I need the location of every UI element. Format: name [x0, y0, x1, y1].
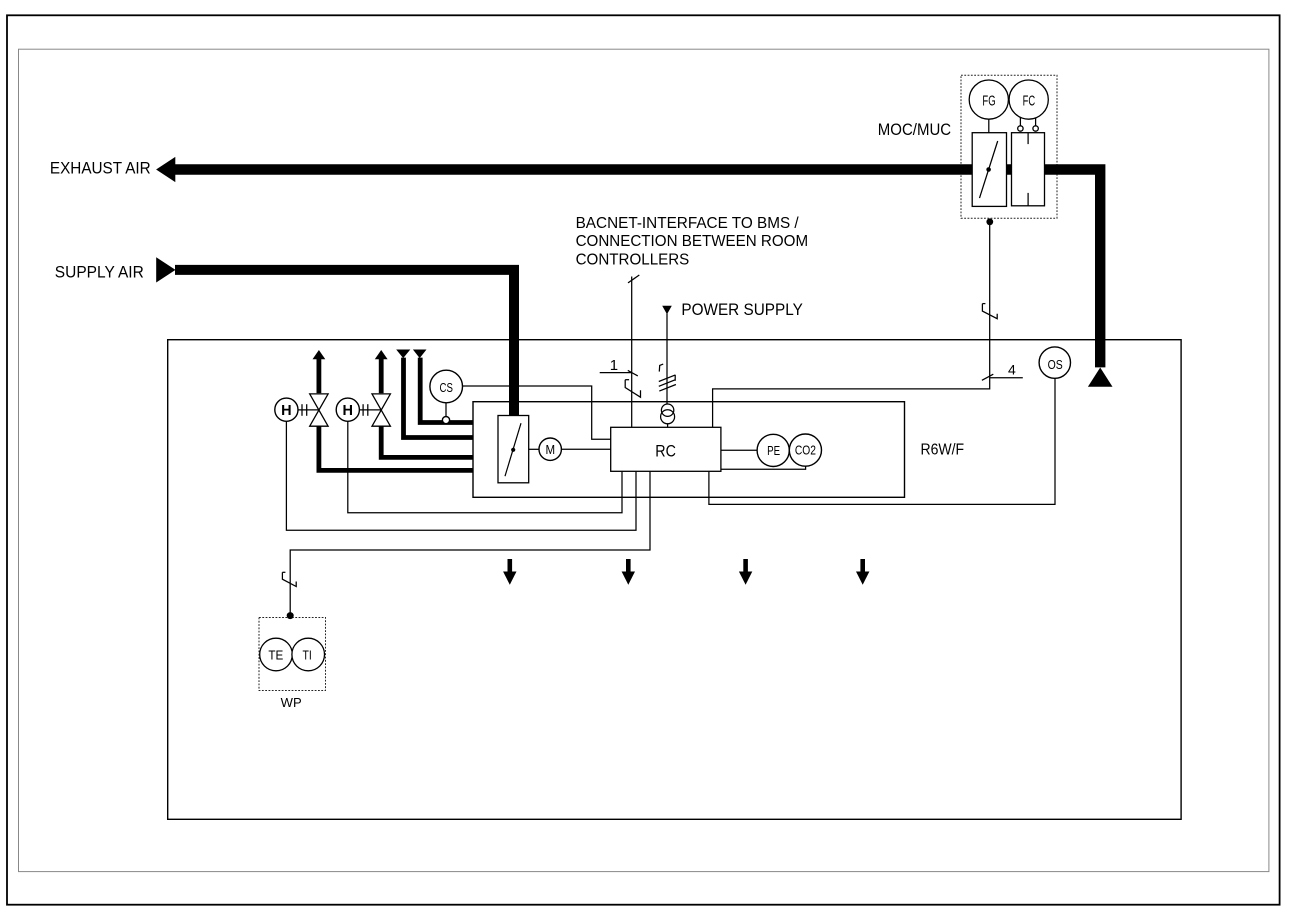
svg-text:TI: TI [303, 647, 312, 662]
svg-text:EXHAUST AIR: EXHAUST AIR [50, 159, 151, 177]
svg-text:M: M [546, 442, 556, 457]
svg-text:CONNECTION BETWEEN ROOM: CONNECTION BETWEEN ROOM [576, 233, 809, 250]
svg-text:OS: OS [1048, 357, 1063, 372]
svg-text:1: 1 [610, 357, 618, 374]
svg-text:CS: CS [440, 380, 453, 395]
svg-text:TE: TE [268, 647, 283, 662]
svg-text:SUPPLY AIR: SUPPLY AIR [55, 263, 144, 281]
svg-text:CONTROLLERS: CONTROLLERS [576, 251, 690, 268]
svg-text:R6W/F: R6W/F [921, 441, 965, 458]
svg-text:WP: WP [281, 695, 302, 710]
svg-text:RC: RC [655, 442, 676, 460]
svg-text:BACNET-INTERFACE TO BMS /: BACNET-INTERFACE TO BMS / [576, 215, 800, 232]
svg-text:H: H [281, 403, 291, 419]
svg-text:FG: FG [982, 93, 995, 109]
svg-text:MOC/MUC: MOC/MUC [878, 121, 951, 139]
svg-text:4: 4 [1008, 361, 1016, 377]
svg-text:FC: FC [1023, 93, 1036, 109]
svg-text:PE: PE [767, 443, 780, 458]
svg-text:H: H [343, 403, 353, 419]
svg-text:CO2: CO2 [795, 443, 816, 458]
svg-text:POWER SUPPLY: POWER SUPPLY [681, 301, 802, 319]
